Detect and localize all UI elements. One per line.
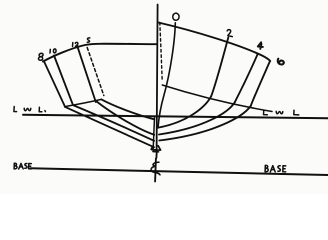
section 4 bottom	[159, 102, 235, 134]
BASE line	[31, 168, 328, 175]
section 10 bottom	[73, 105, 154, 141]
section S bottom	[101, 99, 154, 119]
label 12	[73, 42, 79, 46]
keel side line	[153, 118, 154, 149]
section 12 topside	[77, 46, 96, 102]
label L.W.L right	[264, 110, 268, 115]
section 2 bottom	[159, 96, 211, 127]
section 8 bottom	[65, 107, 154, 147]
stem dashed line	[160, 23, 162, 81]
section 8 topside	[44, 62, 65, 106]
section S topside dashed	[87, 48, 104, 96]
label 0 (rotated)	[173, 13, 179, 20]
label 10	[50, 49, 56, 53]
right sheer line	[158, 23, 270, 62]
label BASE left	[14, 163, 17, 169]
left sheer line	[43, 44, 157, 62]
section 12 bottom	[96, 101, 154, 135]
centerline	[157, 5, 158, 151]
centerline symbol curl	[151, 162, 160, 175]
label L.W.L left	[14, 107, 17, 112]
section 0	[158, 23, 175, 128]
right chine diagonal	[162, 85, 272, 112]
label 4	[258, 42, 263, 49]
label 8	[38, 53, 43, 60]
label BASE right	[265, 165, 268, 171]
centerline dash below keel	[155, 153, 157, 159]
label S	[87, 38, 90, 42]
LWL line	[23, 115, 328, 118]
left chine line	[65, 99, 102, 106]
centerline symbol vertical	[154, 159, 157, 182]
section 4 topside	[235, 54, 258, 102]
keel foot	[151, 146, 160, 152]
label 6 (rotated)	[278, 59, 284, 65]
section 6 bottom	[159, 106, 251, 141]
section 10 topside	[54, 56, 73, 105]
label 2	[227, 30, 232, 37]
section 6 topside	[251, 62, 270, 106]
section 2 topside	[211, 38, 228, 97]
